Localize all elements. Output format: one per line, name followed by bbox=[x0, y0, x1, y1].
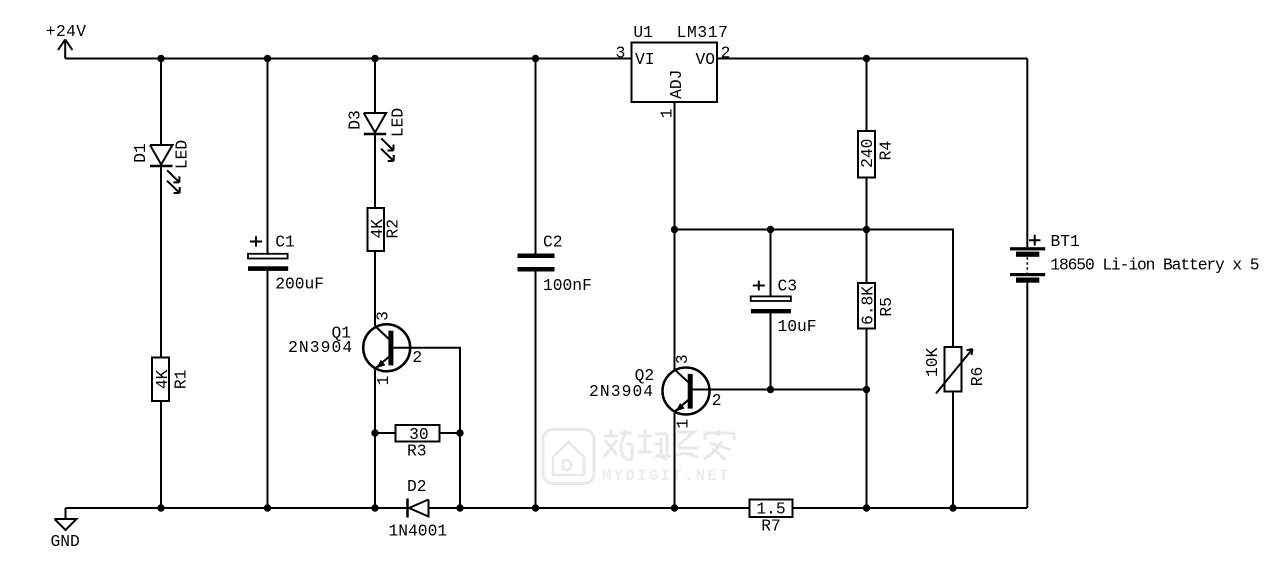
resistor R4 240 bbox=[858, 131, 896, 178]
svg-text:R3: R3 bbox=[407, 441, 427, 460]
junction C2 bottom rail bbox=[532, 504, 539, 511]
wire top rail right bbox=[717, 58, 1027, 60]
wire R4 branch top bbox=[866, 59, 868, 132]
svg-text:3: 3 bbox=[374, 311, 393, 321]
diode D2 1N4001 bbox=[389, 477, 448, 541]
capacitor C1 200uF bbox=[248, 232, 324, 293]
svg-text:10K: 10K bbox=[923, 347, 942, 377]
svg-text:6.8K: 6.8K bbox=[858, 286, 877, 325]
svg-text:1: 1 bbox=[657, 109, 676, 119]
junction C2 top rail bbox=[532, 55, 539, 62]
capacitor C2 100nF bbox=[518, 232, 592, 295]
wire R6 to bottom bbox=[952, 392, 954, 509]
junction C1 top rail bbox=[264, 55, 271, 62]
svg-text:R4: R4 bbox=[876, 141, 895, 161]
wire adj rail bbox=[675, 230, 954, 348]
resistor R1 4K bbox=[152, 358, 190, 402]
wire R3 left bbox=[375, 432, 396, 434]
resistor R2 4K bbox=[368, 208, 403, 251]
svg-text:2N3904: 2N3904 bbox=[589, 382, 654, 401]
resistor R3 30 bbox=[396, 425, 440, 461]
svg-text:2: 2 bbox=[712, 391, 722, 410]
junction R4-R5 node bbox=[863, 226, 870, 233]
svg-text:2: 2 bbox=[721, 44, 731, 63]
svg-text:R2: R2 bbox=[383, 219, 402, 239]
svg-text:R1: R1 bbox=[171, 370, 190, 390]
svg-text:4K: 4K bbox=[153, 369, 172, 389]
junction C3 top node bbox=[767, 226, 774, 233]
wire D3 to R2 bbox=[374, 134, 376, 208]
svg-text:BT1: BT1 bbox=[1051, 232, 1080, 251]
wire C2 to bottom bbox=[535, 272, 537, 509]
svg-text:100nF: 100nF bbox=[543, 276, 592, 295]
svg-text:2: 2 bbox=[412, 348, 422, 367]
transistor Q1 2N3904 bbox=[288, 311, 422, 385]
capacitor C3 10uF bbox=[751, 277, 817, 337]
resistor R6 10K potentiometer bbox=[923, 347, 987, 394]
svg-text:D1: D1 bbox=[131, 143, 150, 163]
diode D1 LED bbox=[131, 140, 192, 193]
junction R5 bottom rail bbox=[863, 504, 870, 511]
junction C1 bottom rail bbox=[264, 504, 271, 511]
wire bottom rail bbox=[66, 507, 1028, 509]
svg-text:LED: LED bbox=[389, 108, 408, 137]
wire R2 to Q1 bbox=[374, 251, 376, 326]
wire Q2 collector bbox=[674, 230, 676, 370]
wire battery drop bottom bbox=[1026, 283, 1028, 508]
svg-text:+24V: +24V bbox=[46, 22, 87, 41]
svg-text:LED: LED bbox=[173, 140, 192, 169]
battery BT1 bbox=[1010, 232, 1259, 283]
wire C3 top bbox=[770, 230, 772, 297]
junction D1 top rail bbox=[157, 55, 164, 62]
wire R3 right bbox=[440, 432, 461, 434]
svg-text:240: 240 bbox=[858, 139, 877, 168]
wire R1 to bottom bbox=[160, 401, 162, 508]
wire C1 to bottom bbox=[267, 271, 269, 508]
junction D2 left bottom rail bbox=[371, 504, 378, 511]
svg-text:3: 3 bbox=[673, 354, 692, 364]
svg-text:R7: R7 bbox=[761, 517, 781, 536]
svg-text:1: 1 bbox=[673, 419, 692, 429]
wire Q2 emitter down bbox=[674, 413, 676, 508]
wire branch D1 top bbox=[160, 59, 162, 146]
wire branch D3 top bbox=[374, 59, 376, 114]
svg-text:1: 1 bbox=[374, 376, 393, 386]
junction D2 right bottom rail bbox=[456, 504, 463, 511]
wire U1 ADJ down bbox=[674, 102, 676, 230]
svg-text:C2: C2 bbox=[543, 232, 563, 251]
wire C3 bottom bbox=[770, 313, 772, 389]
junction R4 top rail bbox=[863, 55, 870, 62]
junction C3 bottom node bbox=[767, 386, 774, 393]
svg-text:U1: U1 bbox=[633, 23, 653, 42]
svg-text:200uF: 200uF bbox=[275, 275, 324, 294]
junction D3 top rail bbox=[371, 55, 378, 62]
svg-text:10uF: 10uF bbox=[778, 317, 817, 336]
transistor Q2 2N3904 bbox=[589, 354, 722, 428]
watermark text bbox=[604, 430, 734, 460]
op-amp U1 LM317 bbox=[616, 23, 731, 118]
wire branch C1 top bbox=[267, 59, 269, 254]
diode D3 LED bbox=[346, 108, 408, 161]
svg-text:MYDIGIT.NET: MYDIGIT.NET bbox=[602, 467, 731, 485]
resistor R5 6.8K bbox=[858, 283, 896, 329]
svg-text:C1: C1 bbox=[275, 232, 295, 251]
power flag +24V bbox=[46, 22, 87, 59]
watermark logo bbox=[543, 430, 594, 484]
svg-text:3: 3 bbox=[616, 44, 626, 63]
svg-text:C3: C3 bbox=[778, 277, 798, 296]
svg-text:1N4001: 1N4001 bbox=[389, 522, 448, 541]
svg-text:VO: VO bbox=[696, 50, 716, 69]
svg-text:D2: D2 bbox=[407, 477, 427, 496]
svg-text:R6: R6 bbox=[968, 367, 987, 387]
wire R5 to bottom bbox=[866, 329, 868, 509]
junction ADJ node bbox=[671, 226, 678, 233]
svg-text:D3: D3 bbox=[346, 110, 365, 130]
junction R5 base node bbox=[863, 386, 870, 393]
svg-text:18650 Li-ion Battery x 5: 18650 Li-ion Battery x 5 bbox=[1050, 256, 1258, 275]
wire Q1 emitter down bbox=[374, 370, 376, 509]
svg-text:VI: VI bbox=[635, 50, 655, 69]
svg-text:LM317: LM317 bbox=[677, 23, 729, 42]
wire top rail left bbox=[65, 58, 631, 60]
wire Q2 base to right bbox=[691, 389, 867, 391]
svg-text:ADJ: ADJ bbox=[667, 70, 686, 99]
wire D1 to R1 bbox=[160, 166, 162, 358]
junction R3 left bbox=[371, 429, 378, 436]
svg-text:R5: R5 bbox=[877, 297, 896, 317]
wire R4 to R5 bbox=[866, 178, 868, 284]
resistor R7 1.5 bbox=[750, 500, 793, 536]
junction R1 bottom rail bbox=[157, 504, 164, 511]
junction Q2 emitter bottom rail bbox=[671, 504, 678, 511]
wire branch C2 top bbox=[535, 59, 537, 254]
svg-text:2N3904: 2N3904 bbox=[288, 338, 353, 357]
wire Q1 base to right bbox=[394, 348, 461, 508]
svg-text:GND: GND bbox=[51, 532, 80, 551]
junction R3 right bbox=[456, 429, 463, 436]
wire battery drop top bbox=[1026, 59, 1028, 248]
ground GND bbox=[51, 508, 80, 551]
junction R6 bottom rail bbox=[949, 504, 956, 511]
